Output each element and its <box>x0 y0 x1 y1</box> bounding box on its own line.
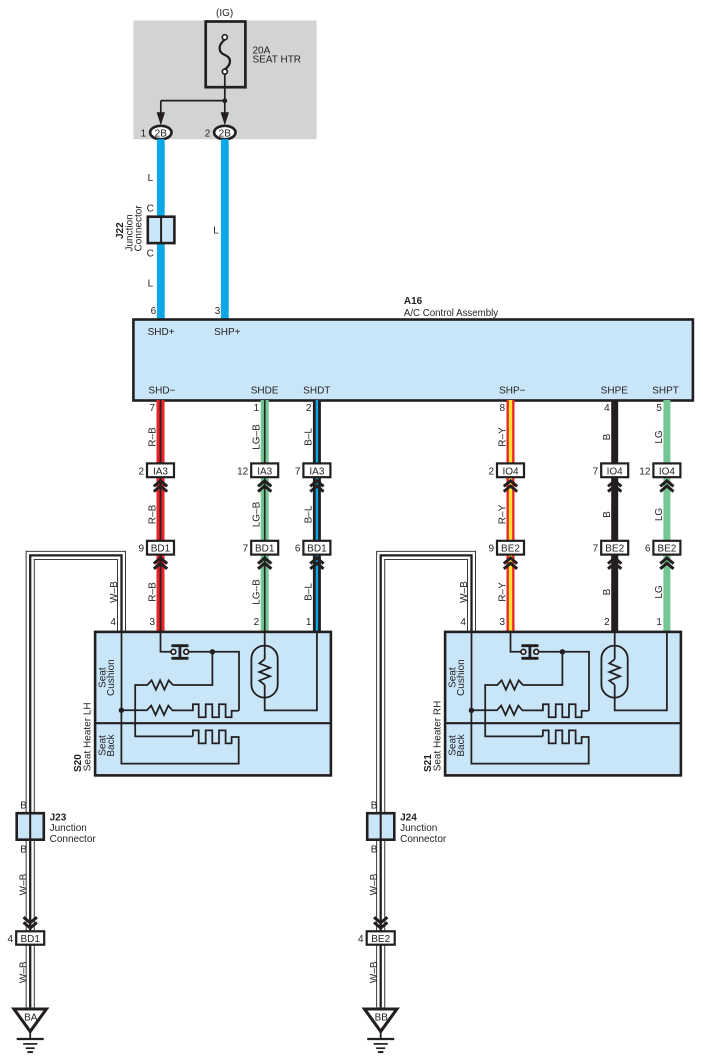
svg-text:Junction: Junction <box>400 823 437 834</box>
svg-text:12: 12 <box>237 466 249 477</box>
svg-text:SHDE: SHDE <box>251 386 279 397</box>
svg-text:SHD+: SHD+ <box>148 327 175 338</box>
svg-text:J23: J23 <box>50 812 67 823</box>
svg-text:W–B: W–B <box>109 581 120 603</box>
svg-text:8: 8 <box>499 403 505 414</box>
svg-text:2: 2 <box>488 466 494 477</box>
svg-text:2: 2 <box>306 403 312 414</box>
svg-text:Cushion: Cushion <box>106 659 117 696</box>
svg-text:SHP−: SHP− <box>499 386 526 397</box>
svg-text:R–B: R–B <box>147 582 158 602</box>
svg-text:7: 7 <box>295 466 301 477</box>
svg-text:1: 1 <box>141 128 147 139</box>
svg-text:3: 3 <box>149 617 155 628</box>
svg-text:7: 7 <box>593 466 599 477</box>
svg-text:A16: A16 <box>404 296 423 307</box>
svg-text:7: 7 <box>243 544 249 555</box>
svg-text:BE2: BE2 <box>501 544 520 555</box>
svg-text:B: B <box>20 844 27 855</box>
svg-text:Connector: Connector <box>50 834 97 845</box>
svg-text:3: 3 <box>215 306 221 317</box>
svg-text:3: 3 <box>499 617 505 628</box>
svg-text:12: 12 <box>639 466 651 477</box>
svg-text:Connector: Connector <box>400 834 447 845</box>
svg-text:BD1: BD1 <box>307 544 327 555</box>
svg-text:SEAT HTR: SEAT HTR <box>253 54 302 65</box>
svg-text:LG: LG <box>654 430 665 444</box>
svg-text:C: C <box>147 249 154 260</box>
svg-text:BE2: BE2 <box>657 544 676 555</box>
svg-text:B–L: B–L <box>304 505 315 523</box>
svg-text:Back: Back <box>456 733 467 756</box>
svg-text:IO4: IO4 <box>607 466 624 477</box>
svg-text:IA3: IA3 <box>257 466 272 477</box>
svg-text:LG–B: LG–B <box>252 501 263 527</box>
svg-text:SHD−: SHD− <box>148 386 175 397</box>
svg-text:R–Y: R–Y <box>497 582 508 602</box>
svg-text:IO4: IO4 <box>502 466 519 477</box>
svg-text:LG: LG <box>654 585 665 599</box>
svg-text:R–B: R–B <box>147 504 158 524</box>
svg-text:B: B <box>602 433 613 440</box>
svg-text:B: B <box>371 801 378 812</box>
svg-text:9: 9 <box>138 544 144 555</box>
svg-text:W–B: W–B <box>459 581 470 603</box>
svg-text:SHPT: SHPT <box>652 386 679 397</box>
svg-text:LG–B: LG–B <box>252 424 263 450</box>
svg-text:6: 6 <box>645 544 651 555</box>
svg-text:LG–B: LG–B <box>252 579 263 605</box>
svg-text:2: 2 <box>604 617 610 628</box>
svg-text:6: 6 <box>151 306 157 317</box>
svg-text:C: C <box>147 204 154 215</box>
svg-text:B: B <box>371 844 378 855</box>
svg-text:1: 1 <box>254 403 260 414</box>
svg-text:4: 4 <box>604 403 610 414</box>
svg-text:W–B: W–B <box>369 873 380 895</box>
svg-text:5: 5 <box>656 403 662 414</box>
svg-text:7: 7 <box>593 544 599 555</box>
svg-text:R–Y: R–Y <box>497 427 508 447</box>
svg-text:B–L: B–L <box>304 583 315 601</box>
svg-text:BD1: BD1 <box>151 544 171 555</box>
svg-text:B: B <box>602 588 613 595</box>
svg-text:Seat Heater RH: Seat Heater RH <box>433 701 444 772</box>
svg-text:R–Y: R–Y <box>497 504 508 524</box>
svg-text:L: L <box>148 279 154 290</box>
svg-text:BD1: BD1 <box>20 934 40 945</box>
svg-text:1: 1 <box>656 617 662 628</box>
svg-text:R–B: R–B <box>147 427 158 447</box>
svg-text:SHDT: SHDT <box>303 386 330 397</box>
svg-text:A/C Control Assembly: A/C Control Assembly <box>404 308 498 319</box>
svg-text:(IG): (IG) <box>216 8 233 19</box>
svg-text:4: 4 <box>110 617 116 628</box>
svg-text:2: 2 <box>254 617 260 628</box>
svg-text:W–B: W–B <box>19 961 30 983</box>
svg-text:6: 6 <box>295 544 301 555</box>
svg-text:Cushion: Cushion <box>456 659 467 696</box>
svg-text:Connector: Connector <box>133 205 144 252</box>
svg-text:LG: LG <box>654 508 665 522</box>
svg-text:Back: Back <box>106 733 117 756</box>
svg-text:2B: 2B <box>219 128 232 139</box>
svg-text:B: B <box>602 511 613 518</box>
svg-text:4: 4 <box>460 617 466 628</box>
svg-text:W–B: W–B <box>19 873 30 895</box>
svg-text:BA: BA <box>24 1012 38 1023</box>
svg-text:W–B: W–B <box>369 961 380 983</box>
svg-text:IO4: IO4 <box>659 466 676 477</box>
svg-text:IA3: IA3 <box>153 466 168 477</box>
svg-text:IA3: IA3 <box>309 466 324 477</box>
svg-text:7: 7 <box>149 403 155 414</box>
svg-text:SHP+: SHP+ <box>214 327 241 338</box>
svg-text:4: 4 <box>358 934 364 945</box>
svg-text:SHPE: SHPE <box>601 386 629 397</box>
svg-text:B: B <box>20 801 27 812</box>
svg-text:2: 2 <box>205 128 211 139</box>
svg-text:BD1: BD1 <box>255 544 275 555</box>
svg-text:BB: BB <box>375 1012 389 1023</box>
svg-text:L: L <box>148 173 154 184</box>
svg-text:2B: 2B <box>155 128 168 139</box>
svg-text:L: L <box>213 225 219 236</box>
svg-text:B–L: B–L <box>304 428 315 446</box>
svg-text:BE2: BE2 <box>605 544 624 555</box>
svg-text:1: 1 <box>306 617 312 628</box>
svg-text:4: 4 <box>7 934 13 945</box>
svg-text:Junction: Junction <box>50 823 87 834</box>
svg-text:9: 9 <box>488 544 494 555</box>
svg-text:Seat Heater LH: Seat Heater LH <box>83 702 94 771</box>
svg-text:BE2: BE2 <box>371 934 390 945</box>
svg-text:2: 2 <box>138 466 144 477</box>
svg-text:J24: J24 <box>400 812 417 823</box>
